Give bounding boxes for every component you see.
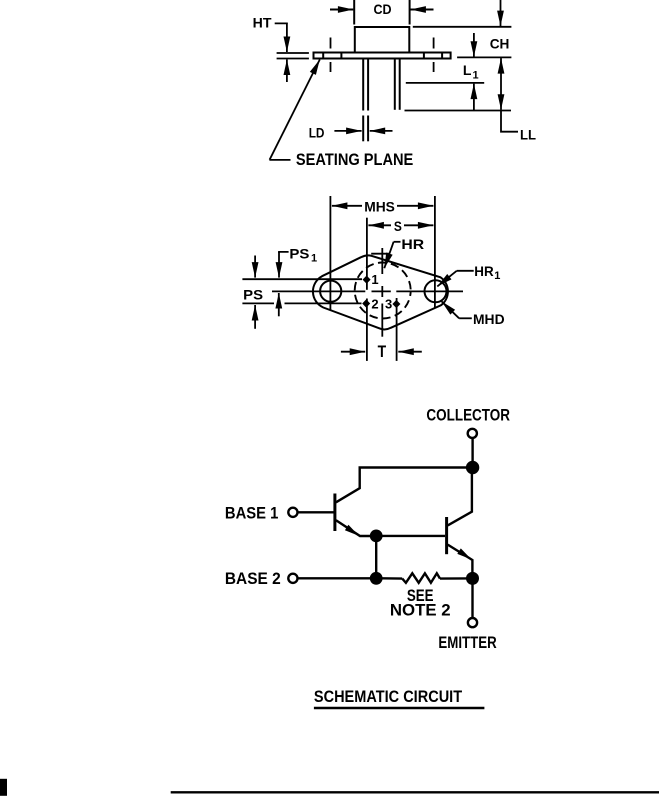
HT lower arrow <box>286 60 288 83</box>
HR leader <box>394 241 401 243</box>
can outline hidden (dashed circle) <box>355 263 411 319</box>
flange notch line 1 <box>322 53 324 59</box>
svg-text:PS: PS <box>243 286 263 302</box>
svg-text:PS: PS <box>289 245 309 261</box>
page bottom rule <box>171 791 659 793</box>
emitter terminal <box>468 618 477 627</box>
title underline <box>314 707 485 709</box>
MHS right extension line <box>434 196 436 308</box>
seating plane leader tail <box>269 159 290 161</box>
wire resistor to emitter node <box>440 577 467 580</box>
flange (header) side view <box>314 53 451 59</box>
left lead outer line <box>362 59 364 111</box>
svg-text:1: 1 <box>473 70 479 82</box>
svg-text:1: 1 <box>371 272 378 287</box>
svg-text:HR: HR <box>474 263 493 279</box>
hole center row line <box>272 290 365 292</box>
Q2 collector line <box>448 473 472 526</box>
PS1 leader and upper arrow <box>279 252 289 253</box>
pin 3 dot <box>392 300 400 308</box>
MHS dimension left arrow <box>332 205 362 207</box>
transistor Q2 base bar <box>445 517 448 554</box>
wire base2 to junction <box>298 577 372 579</box>
svg-text:MHD: MHD <box>473 311 505 327</box>
HT extension line bottom <box>277 58 309 60</box>
HR1 leader <box>457 270 474 272</box>
svg-text:EMITTER: EMITTER <box>438 633 496 652</box>
svg-text:HR: HR <box>401 236 424 252</box>
svg-text:HT: HT <box>253 14 272 30</box>
wire node to Q1 collector <box>336 468 467 503</box>
pin2/3 row line left part <box>242 302 274 304</box>
flange outline (bottom view) <box>313 255 448 329</box>
LL leader corner <box>501 111 518 132</box>
L1 lower arrow <box>473 84 475 111</box>
CD right extension line <box>409 0 411 25</box>
PS upper arrow <box>254 256 256 278</box>
lead tip extension line <box>405 110 512 112</box>
LD dimension left arrow <box>334 130 361 132</box>
package centerline lower <box>381 286 383 297</box>
svg-text:S: S <box>394 218 402 234</box>
collector terminal <box>468 429 477 438</box>
wire base1 to Q1 <box>298 511 334 513</box>
wire junction down to base2 node <box>375 540 377 574</box>
S dimension right arrow <box>404 224 433 226</box>
hole centerline dashed right (side view) <box>433 38 435 49</box>
svg-text:BASE 1: BASE 1 <box>225 503 279 522</box>
HT upper arrow <box>286 23 288 52</box>
S left extension line (pin column) <box>366 218 368 290</box>
HT leader horizontal <box>275 22 287 25</box>
CD dimension left arrow <box>330 9 353 11</box>
pin2/3 row line right part <box>285 302 362 304</box>
T dimension right arrow <box>398 351 422 353</box>
svg-text:CH: CH <box>490 36 510 52</box>
MHS dimension right arrow <box>397 205 433 207</box>
svg-text:3: 3 <box>385 296 392 311</box>
svg-text:SEATING PLANE: SEATING PLANE <box>296 150 413 169</box>
MHD leader <box>459 317 472 319</box>
pin1 row line <box>242 278 362 280</box>
T dimension left arrow <box>341 351 365 353</box>
Q1 emitter arrowhead <box>345 525 359 536</box>
svg-text:LD: LD <box>309 124 325 140</box>
base2 node dot <box>371 573 381 583</box>
right lead outer line <box>394 59 396 110</box>
left lead stub below break <box>362 116 364 142</box>
left mounting hole <box>320 281 341 302</box>
L1 lower extension line <box>406 82 484 84</box>
svg-text:LL: LL <box>520 127 536 143</box>
PS1 lower arrow <box>278 293 280 316</box>
emitter node dot <box>467 573 478 584</box>
seating plane leader arrow <box>270 60 320 160</box>
seating plane extension line right <box>457 56 511 58</box>
package centerline upper <box>381 248 383 274</box>
right lead inner line <box>399 59 401 110</box>
flange notch line 4 <box>441 53 443 59</box>
Q2 emitter arrowhead <box>457 548 471 559</box>
package centerline tick <box>371 253 389 255</box>
cap top extension line right <box>413 26 512 28</box>
hole centerline dashed left (side view) <box>330 38 332 49</box>
right mounting hole <box>425 280 447 302</box>
pin 1 dot <box>363 276 371 284</box>
flange notch line 3 <box>423 53 425 59</box>
cap (can body) <box>355 27 410 53</box>
wire junction to Q2 base <box>381 535 445 537</box>
wire collector terminal to node <box>471 438 473 462</box>
sidebar change mark <box>0 779 7 796</box>
svg-text:T: T <box>378 342 387 361</box>
svg-text:SCHEMATIC CIRCUIT: SCHEMATIC CIRCUIT <box>314 687 463 706</box>
S dimension left arrow <box>368 224 391 226</box>
svg-text:NOTE 2: NOTE 2 <box>390 601 451 620</box>
base 2 terminal <box>288 574 297 583</box>
LD dimension right arrow <box>370 130 393 132</box>
PS lower arrow <box>254 305 256 329</box>
MHS left extension line <box>329 196 331 310</box>
svg-text:BASE 2: BASE 2 <box>225 569 281 588</box>
left lead inner line <box>367 59 369 111</box>
CH upper arrow <box>500 0 502 26</box>
svg-text:COLLECTOR: COLLECTOR <box>426 406 510 425</box>
svg-text:2: 2 <box>371 296 378 311</box>
CD left extension line <box>353 0 355 25</box>
flange notch line 2 <box>340 53 342 59</box>
junction dot Q1 emitter / Q2 base <box>371 531 381 541</box>
Q1 emitter line <box>336 520 372 536</box>
transistor Q1 base bar <box>333 494 336 532</box>
HT extension line top <box>277 52 309 54</box>
pin3 column line <box>396 298 398 361</box>
svg-text:MHS: MHS <box>364 198 395 214</box>
CD dimension right arrow <box>410 9 433 11</box>
LL dimension line with arrows both ends (also CH lower arrow) <box>500 58 502 110</box>
pin 2 dot <box>362 299 370 307</box>
left lead stub inner <box>367 116 369 142</box>
wire node to resistor <box>381 577 402 580</box>
Q2 emitter line <box>448 545 473 574</box>
svg-text:1: 1 <box>494 270 500 282</box>
svg-text:CD: CD <box>374 1 392 17</box>
svg-text:L: L <box>463 62 472 78</box>
wire emitter node down <box>471 584 473 618</box>
resistor SEE NOTE 2 <box>402 573 440 583</box>
base 1 terminal <box>288 508 297 517</box>
L1 upper arrow <box>473 33 475 57</box>
svg-text:1: 1 <box>311 253 317 265</box>
collector node <box>467 462 478 473</box>
